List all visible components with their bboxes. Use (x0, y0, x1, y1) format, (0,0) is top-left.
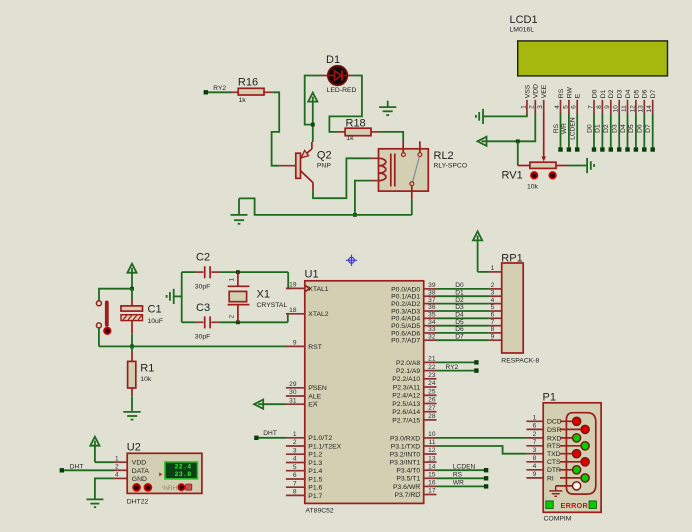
svg-text:XTAL2: XTAL2 (308, 311, 328, 318)
wire LCD D5 column (635, 113, 637, 147)
svg-text:P1.3: P1.3 (308, 460, 322, 467)
power terminal at RP1 (473, 231, 482, 272)
svg-text:36: 36 (428, 304, 436, 311)
node D3 terminal below LCD (617, 147, 621, 151)
pin 7 of RP1 (489, 325, 502, 327)
svg-text:P0.2/AD2: P0.2/AD2 (391, 301, 420, 308)
capacitor C3 30pF (182, 321, 197, 323)
svg-text:U1: U1 (305, 269, 319, 281)
wire D6 P0 to RP1 (437, 332, 489, 334)
svg-text:11: 11 (429, 439, 436, 446)
svg-text:1k: 1k (346, 135, 354, 142)
svg-text:1k: 1k (239, 97, 247, 104)
svg-text:E: E (575, 93, 582, 98)
svg-text:DHT: DHT (263, 430, 277, 437)
junction RST node (130, 345, 134, 349)
svg-text:P1.2: P1.2 (308, 452, 322, 459)
pin 8 CTS of P1 (526, 461, 543, 463)
wire to push button (99, 289, 132, 301)
pin 3 P1.2 of U1 (286, 453, 305, 455)
pin 1 DCD of P1 (526, 420, 543, 422)
svg-text:VSS: VSS (524, 84, 531, 98)
wire LCD D2 column (610, 113, 612, 147)
svg-text:%RH: %RH (162, 485, 177, 492)
svg-text:10: 10 (428, 431, 436, 438)
svg-text:14: 14 (428, 463, 436, 470)
pin 13 P3.3/INT1 of U1 (424, 461, 437, 463)
wire LCD RW column (568, 113, 570, 147)
capacitor C1 10uF (131, 289, 133, 300)
wire XTAL2 entry (286, 314, 289, 323)
svg-text:10: 10 (613, 105, 620, 113)
svg-text:P3.5/T1: P3.5/T1 (396, 476, 420, 483)
wire power to RP1 pin 1 (478, 271, 489, 273)
pin 26 P2.5/A13 of U1 (424, 403, 437, 405)
svg-text:10k: 10k (527, 184, 539, 191)
wire D0 P0 to RP1 (437, 288, 489, 290)
svg-text:DTR: DTR (547, 467, 561, 474)
svg-text:DCD: DCD (547, 419, 562, 426)
wire LCDEN net (437, 469, 485, 471)
junction C1 top (130, 287, 134, 291)
svg-text:39: 39 (428, 282, 436, 289)
svg-text:27: 27 (428, 405, 436, 412)
svg-text:8: 8 (491, 326, 495, 333)
wire LCD D6 column (643, 113, 645, 147)
svg-text:WR: WR (453, 480, 464, 487)
potentiometer RV1 10k (518, 165, 530, 167)
svg-text:D4: D4 (455, 312, 464, 319)
node RY2 terminal at P2.1 (474, 368, 478, 372)
pin 11 P3.1/TXD of U1 (424, 445, 437, 447)
svg-text:P1: P1 (543, 391, 556, 403)
junction crystal bottom (236, 320, 240, 324)
svg-text:19: 19 (289, 282, 297, 289)
svg-text:1: 1 (520, 105, 527, 109)
svg-text:U2: U2 (127, 442, 141, 454)
node D2 terminal below LCD (609, 147, 613, 151)
pin 9 RST of U1 (286, 345, 305, 347)
wire D3 P0 to RP1 (437, 310, 489, 312)
node RS terminal below LCD (558, 147, 562, 151)
svg-text:C3: C3 (196, 302, 210, 314)
svg-text:8: 8 (533, 455, 537, 462)
svg-text:P1.7: P1.7 (308, 493, 322, 500)
svg-text:P1.1/T2EX: P1.1/T2EX (308, 443, 341, 450)
pin 14 P3.4/T0 of U1 (424, 469, 437, 471)
node DHT terminal at U1 (254, 436, 258, 440)
svg-text:DHT22: DHT22 (127, 498, 149, 505)
node D0 terminal below LCD (592, 147, 596, 151)
svg-text:VDD: VDD (533, 84, 540, 98)
svg-text:30: 30 (289, 389, 297, 396)
svg-text:P3.0/RXD: P3.0/RXD (390, 435, 420, 442)
pin 8 P1.7 of U1 (286, 494, 305, 496)
pin 3 TXD of P1 (526, 453, 543, 455)
svg-text:4: 4 (533, 463, 537, 470)
svg-text:7: 7 (533, 439, 537, 446)
svg-text:31: 31 (289, 397, 297, 404)
svg-text:ALE: ALE (308, 393, 321, 400)
svg-text:C2: C2 (196, 252, 210, 264)
svg-text:2: 2 (293, 439, 297, 446)
node LCDEN terminal below LCD (575, 147, 579, 151)
svg-text:ERROR: ERROR (561, 501, 589, 510)
svg-text:D1: D1 (595, 124, 602, 133)
wire LCD D0 column (593, 113, 595, 147)
wire P2.0 net (437, 361, 475, 363)
wire C1 to RST rail (131, 334, 133, 347)
svg-text:3: 3 (491, 289, 495, 296)
svg-text:33: 33 (428, 326, 436, 333)
svg-text:8: 8 (293, 489, 297, 496)
wire relay common to ground rail (411, 200, 413, 215)
svg-text:P0.3/AD3: P0.3/AD3 (391, 308, 420, 315)
wire R16 to Q2 base (272, 92, 280, 165)
wire VSS to ground (486, 113, 527, 116)
pin 14 D7 of LCD1 (652, 100, 654, 113)
pin 25 P2.4/A12 of U1 (424, 394, 437, 396)
svg-text:P3.3/INT1: P3.3/INT1 (390, 460, 421, 467)
power terminal at C1 (127, 264, 136, 289)
ground near R18 (379, 101, 396, 115)
ground inside P1 (549, 486, 562, 496)
pin 4 GND of U2 (114, 477, 127, 479)
svg-text:37: 37 (428, 297, 436, 304)
wire R1 to ground (131, 396, 133, 412)
node DHT terminal at U2 (60, 468, 64, 472)
pin 4 of RP1 (489, 303, 502, 305)
svg-text:4: 4 (554, 105, 561, 109)
svg-text:9: 9 (533, 471, 537, 478)
pin 29 PSEN of U1 (286, 387, 305, 389)
svg-text:GND: GND (132, 476, 147, 483)
svg-text:D1: D1 (326, 54, 340, 66)
pin 6 of RP1 (489, 317, 502, 319)
svg-text:P0.6/AD6: P0.6/AD6 (391, 330, 420, 337)
svg-text:1: 1 (229, 278, 236, 282)
svg-text:14: 14 (646, 105, 653, 113)
ground below U2 (86, 499, 103, 507)
wire ground rail (239, 198, 412, 215)
pin 11 D4 of LCD1 (627, 100, 629, 113)
power terminal VCC at Q2 (308, 93, 317, 142)
pin 3 VEE of LCD1 (543, 100, 545, 113)
svg-text:P2.1/A9: P2.1/A9 (396, 368, 420, 375)
svg-text:7: 7 (491, 319, 495, 326)
svg-text:P2.5/A13: P2.5/A13 (392, 401, 420, 408)
svg-text:7: 7 (293, 480, 297, 487)
display of U2 (165, 462, 198, 479)
pin 2 RXD of P1 (526, 437, 543, 439)
push button reset (96, 301, 101, 306)
wire capacitor left leg (181, 272, 183, 322)
svg-text:D1: D1 (600, 89, 607, 98)
wire RS net (437, 477, 485, 479)
pin 38 P0.1/AD1 of U1 (424, 295, 437, 297)
svg-text:RY2: RY2 (446, 364, 459, 371)
node WR terminal (484, 484, 488, 488)
svg-text:C1: C1 (148, 304, 162, 316)
pin 19 XTAL1 of U1 (286, 287, 305, 289)
ground below R1 (123, 412, 140, 420)
svg-text:X1: X1 (257, 289, 270, 301)
svg-text:D7: D7 (455, 333, 464, 340)
svg-text:2: 2 (533, 431, 537, 438)
svg-text:RS: RS (558, 88, 565, 98)
resistor pack RP1 RESPACK-8 (502, 263, 524, 353)
pin 6 P1.5 of U1 (286, 478, 305, 480)
pin 21 P2.0/A8 of U1 (424, 361, 437, 363)
svg-text:16: 16 (428, 480, 436, 487)
wire WR net (437, 485, 485, 487)
wire DHT to U2 DATA (64, 469, 114, 471)
wire RV1 to ground (569, 165, 583, 167)
wire LCD D7 column (652, 113, 654, 147)
svg-text:10uF: 10uF (148, 318, 164, 325)
svg-text:D2: D2 (455, 297, 464, 304)
svg-text:P0.7/AD7: P0.7/AD7 (391, 338, 420, 345)
pin 5 of RP1 (489, 310, 502, 312)
svg-text:5: 5 (293, 464, 297, 471)
svg-text:D7: D7 (645, 124, 652, 133)
pin 34 P0.5/AD5 of U1 (424, 325, 437, 327)
pin 22 P2.1/A9 of U1 (424, 370, 437, 372)
svg-text:P0.5/AD5: P0.5/AD5 (391, 323, 420, 330)
svg-text:R18: R18 (346, 117, 366, 129)
svg-text:P1.4: P1.4 (308, 468, 322, 475)
svg-text:8: 8 (596, 105, 603, 109)
svg-text:D6: D6 (637, 124, 644, 133)
pin 39 P0.0/AD0 of U1 (424, 288, 437, 290)
pin 1 VDD of U2 (114, 461, 127, 463)
node D6 terminal below LCD (642, 147, 646, 151)
pin 37 P0.2/AD2 of U1 (424, 303, 437, 305)
svg-text:P3.4/T0: P3.4/T0 (396, 468, 420, 475)
svg-text:12: 12 (428, 447, 436, 454)
wire LED cathode to R18 (329, 76, 362, 132)
node D1 terminal below LCD (600, 147, 604, 151)
svg-text:XTAL1: XTAL1 (308, 286, 328, 293)
wire RXD net U1 to P1 (437, 437, 527, 439)
pin 8 of RP1 (489, 332, 502, 334)
pin 1 of RP1 (489, 271, 502, 273)
wire LCD D1 column (601, 113, 603, 147)
svg-text:R16: R16 (238, 77, 258, 89)
node RS terminal (484, 476, 488, 480)
svg-text:17: 17 (428, 488, 436, 495)
pin 5 RW of LCD1 (568, 100, 570, 113)
wire C2 to XTAL1 (219, 271, 288, 273)
svg-text:6: 6 (571, 105, 578, 109)
svg-text:35: 35 (428, 312, 436, 319)
pin 32 P0.7/AD7 of U1 (424, 339, 437, 341)
svg-text:D4: D4 (625, 89, 632, 98)
svg-text:RV1: RV1 (502, 170, 523, 182)
node WR terminal below LCD (567, 147, 571, 151)
wire LED anode branch (305, 76, 321, 125)
svg-text:RY2: RY2 (213, 85, 226, 92)
node D5 terminal below LCD (634, 147, 638, 151)
svg-text:22: 22 (428, 364, 436, 371)
svg-text:RS: RS (553, 123, 560, 133)
wire RY2 net at P2.1 (437, 370, 475, 372)
wire relay coil to ground rail (355, 181, 371, 215)
crystal X1 (237, 272, 239, 286)
sensor U2 DHT22 (127, 453, 202, 493)
junction ground rail (353, 213, 357, 217)
wire Q2 collector to relay coil (313, 158, 370, 198)
svg-text:6: 6 (491, 312, 495, 319)
svg-text:VDD: VDD (132, 460, 146, 467)
wire LCD E column (576, 113, 578, 147)
svg-text:AT89C52: AT89C52 (306, 508, 334, 515)
svg-text:P1.5: P1.5 (308, 476, 322, 483)
wire U2 GND (95, 478, 114, 499)
pin 1 P1.0/T2 of U1 (286, 437, 305, 439)
pin 2 P1.1/T2EX of U1 (286, 445, 305, 447)
wire DHT to P1.0 (258, 437, 286, 439)
pin 4 RS of LCD1 (560, 100, 562, 113)
svg-text:13: 13 (638, 105, 645, 113)
wire LCD RS column (560, 113, 562, 147)
svg-text:5: 5 (491, 304, 495, 311)
origin marker (346, 255, 357, 266)
svg-text:P1.6: P1.6 (308, 485, 322, 492)
svg-text:32: 32 (428, 333, 436, 340)
power terminal at EA (254, 400, 286, 409)
svg-text:D5: D5 (633, 89, 640, 98)
pin 5 P1.4 of U1 (286, 470, 305, 472)
svg-text:P1.0/T2: P1.0/T2 (308, 435, 332, 442)
node D7 terminal below LCD (651, 147, 655, 151)
wire VDD net (487, 113, 536, 141)
pin 6 E of LCD1 (576, 100, 578, 113)
pin 12 D5 of LCD1 (635, 100, 637, 113)
pin 27 P2.6/A14 of U1 (424, 411, 437, 413)
wire RY2 to R16 (208, 91, 232, 93)
svg-text:COMPIM: COMPIM (544, 515, 572, 522)
wire RST rail (99, 345, 287, 347)
svg-text:D3: D3 (612, 124, 619, 133)
ground for relay circuit (231, 198, 248, 223)
pin 4 DTR of P1 (526, 469, 543, 471)
svg-text:24: 24 (428, 380, 436, 387)
svg-text:P2.2/A10: P2.2/A10 (392, 376, 420, 383)
svg-text:VEE: VEE (541, 84, 548, 98)
node RY2 terminal (204, 90, 208, 94)
ground for C2 C3 (167, 289, 182, 304)
svg-text:26: 26 (428, 397, 436, 404)
pin 36 P0.3/AD3 of U1 (424, 310, 437, 312)
svg-text:34: 34 (428, 319, 436, 326)
svg-text:P0.4/AD4: P0.4/AD4 (391, 316, 420, 323)
svg-text:3: 3 (293, 447, 297, 454)
node LCDEN terminal (484, 468, 488, 472)
svg-text:D6: D6 (642, 89, 649, 98)
resistor R18 (338, 131, 346, 133)
svg-text:4: 4 (115, 472, 119, 479)
svg-text:RS: RS (453, 472, 463, 479)
svg-text:D7: D7 (650, 89, 657, 98)
svg-text:CRYSTAL: CRYSTAL (257, 302, 288, 309)
svg-text:DATA: DATA (132, 468, 150, 475)
svg-text:PNP: PNP (317, 163, 331, 170)
pin 3 of RP1 (489, 295, 502, 297)
svg-text:6: 6 (533, 423, 537, 430)
svg-text:WR: WR (561, 123, 568, 134)
pin 5 shield of P1 (556, 485, 573, 487)
svg-text:1: 1 (533, 415, 537, 422)
ic U1 AT89C52 (305, 281, 424, 504)
junction VDD RV1 branch (516, 139, 520, 143)
svg-text:2: 2 (529, 105, 536, 109)
svg-text:1: 1 (115, 455, 119, 462)
svg-text:D0: D0 (455, 282, 464, 289)
wire button to RST rail (98, 328, 100, 347)
svg-text:25: 25 (428, 389, 436, 396)
diode D1 LED-RED (321, 75, 328, 77)
svg-text:RESPACK-8: RESPACK-8 (501, 357, 539, 364)
svg-text:LCDEN: LCDEN (453, 463, 476, 470)
wire D1 P0 to RP1 (437, 295, 489, 297)
svg-text:5: 5 (562, 105, 569, 109)
indicator leds of U2 (133, 484, 140, 491)
pin 1 VSS of LCD1 (526, 100, 528, 113)
wire D4 P0 to RP1 (437, 317, 489, 319)
pin 7 RTS of P1 (526, 445, 543, 447)
wire D2 P0 to RP1 (437, 303, 489, 305)
svg-text:LCDEN: LCDEN (570, 117, 577, 140)
pin 7 P1.6 of U1 (286, 486, 305, 488)
svg-text:2: 2 (491, 282, 495, 289)
svg-text:D2: D2 (608, 89, 615, 98)
svg-text:9: 9 (293, 340, 297, 347)
svg-text:13: 13 (428, 455, 436, 462)
svg-text:12: 12 (629, 105, 636, 113)
svg-text:2: 2 (229, 315, 236, 319)
pin 18 XTAL2 of U1 (286, 313, 305, 315)
pin 12 P3.2/INT0 of U1 (424, 453, 437, 455)
svg-text:1: 1 (491, 265, 495, 272)
svg-text:RTS: RTS (547, 443, 561, 450)
svg-text:11: 11 (621, 105, 628, 112)
svg-text:EA: EA (308, 402, 318, 409)
svg-text:6: 6 (293, 472, 297, 479)
svg-text:P0.0/AD0: P0.0/AD0 (391, 286, 420, 293)
wire D5 P0 to RP1 (437, 325, 489, 327)
svg-text:7: 7 (587, 105, 594, 109)
svg-text:P3.1/TXD: P3.1/TXD (391, 443, 421, 450)
svg-text:P2.4/A12: P2.4/A12 (392, 393, 420, 400)
svg-text:D2: D2 (603, 124, 610, 133)
svg-text:3: 3 (537, 105, 544, 109)
svg-text:P3.7/RD: P3.7/RD (394, 492, 420, 499)
pin 15 P3.5/T1 of U1 (424, 477, 437, 479)
pin 23 P2.2/A10 of U1 (424, 378, 437, 380)
svg-text:29: 29 (289, 381, 297, 388)
svg-text:DSR: DSR (547, 427, 561, 434)
svg-text:D3: D3 (455, 304, 464, 311)
svg-text:R1: R1 (140, 363, 154, 375)
svg-text:4: 4 (491, 297, 495, 304)
svg-text:P3.6/WR: P3.6/WR (393, 484, 420, 491)
svg-text:LED-RED: LED-RED (327, 87, 357, 94)
pin 8 D1 of LCD1 (601, 100, 603, 113)
pot RV1 wiper wire (543, 113, 545, 157)
power terminal at U2 (90, 437, 99, 463)
ground at RV1 (583, 158, 594, 173)
